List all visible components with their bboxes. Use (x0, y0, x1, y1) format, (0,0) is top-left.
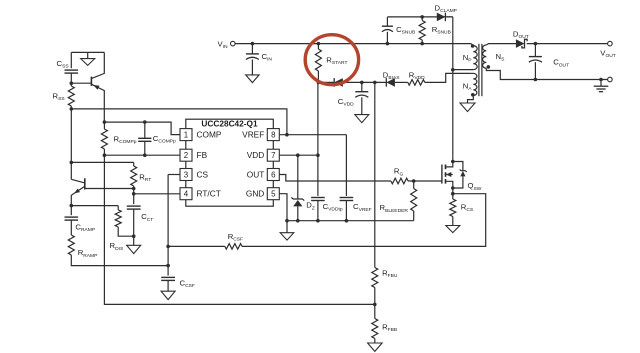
svg-text:RRAMP: RRAMP (78, 248, 98, 259)
svg-text:OUT: OUT (247, 169, 265, 179)
svg-text:6: 6 (271, 170, 276, 179)
svg-text:CCSF: CCSF (180, 279, 195, 290)
svg-text:VDD: VDD (247, 150, 265, 160)
svg-text:RFBB: RFBB (382, 322, 397, 333)
svg-text:RSTART: RSTART (326, 56, 347, 67)
svg-text:CS: CS (197, 169, 209, 179)
svg-text:RBLEEDER: RBLEEDER (380, 203, 409, 214)
svg-text:DZ: DZ (306, 201, 315, 212)
svg-text:1: 1 (184, 131, 188, 140)
svg-text:CSS: CSS (57, 59, 70, 70)
svg-text:DCLAMP: DCLAMP (435, 3, 457, 14)
svg-text:CVDD: CVDD (338, 97, 354, 108)
svg-text:NA: NA (463, 81, 473, 92)
svg-text:5: 5 (271, 190, 276, 199)
svg-text:CCOMPp: CCOMPp (153, 134, 176, 145)
svg-text:RCS: RCS (461, 203, 474, 214)
svg-text:3: 3 (184, 170, 189, 179)
svg-text:RFBU: RFBU (382, 268, 398, 279)
svg-text:DOUT: DOUT (513, 30, 529, 41)
svg-text:RDIS: RDIS (110, 241, 124, 252)
svg-text:2: 2 (184, 151, 188, 160)
svg-text:RG: RG (394, 167, 404, 178)
svg-text:FB: FB (197, 150, 208, 160)
svg-text:CVREF: CVREF (353, 202, 372, 213)
svg-text:7: 7 (271, 151, 275, 160)
svg-text:RCSF: RCSF (228, 232, 243, 243)
svg-text:CRAMP: CRAMP (75, 223, 95, 234)
svg-text:QSW: QSW (468, 181, 482, 192)
svg-text:RSNUB: RSNUB (432, 25, 451, 36)
svg-text:RVDD: RVDD (409, 70, 425, 81)
svg-text:COUT: COUT (553, 58, 569, 69)
svg-text:UCC28C42-Q1: UCC28C42-Q1 (201, 118, 258, 128)
svg-text:VREF: VREF (242, 130, 264, 140)
svg-text:NP: NP (463, 53, 472, 64)
svg-text:CSNUB: CSNUB (396, 25, 415, 36)
svg-text:COMP: COMP (197, 130, 222, 140)
svg-text:VIN: VIN (217, 40, 227, 51)
svg-text:4: 4 (184, 190, 189, 199)
svg-text:8: 8 (271, 131, 276, 140)
svg-text:RSS: RSS (53, 91, 66, 102)
svg-text:RRT: RRT (139, 173, 151, 184)
svg-text:CCT: CCT (141, 212, 153, 223)
svg-text:RCOMPp: RCOMPp (114, 135, 137, 146)
svg-text:DBIAS: DBIAS (383, 70, 400, 81)
svg-text:CIN: CIN (262, 52, 273, 63)
svg-text:GND: GND (246, 189, 264, 199)
svg-text:RT/CT: RT/CT (197, 189, 221, 199)
svg-text:CVDDtp: CVDDtp (323, 202, 343, 213)
svg-text:VOUT: VOUT (600, 48, 615, 59)
svg-text:NS: NS (496, 52, 506, 63)
